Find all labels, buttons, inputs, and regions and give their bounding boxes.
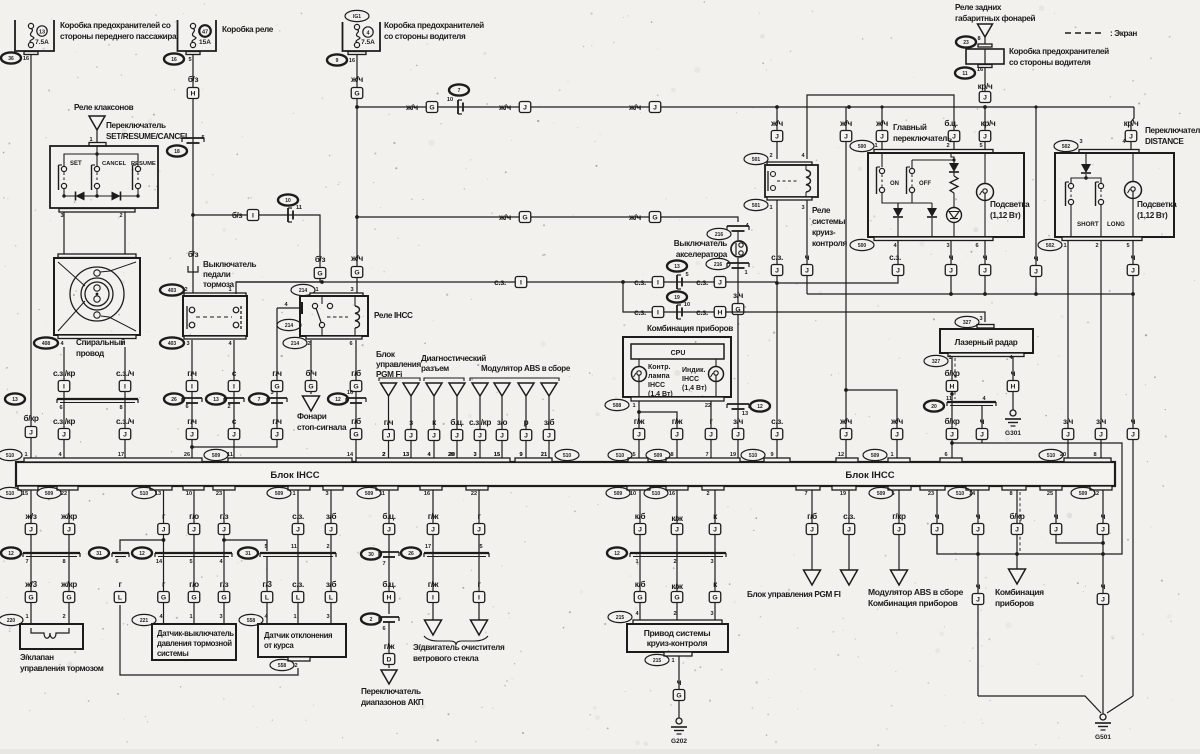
svg-text:I: I — [233, 384, 235, 391]
diode D2 — [112, 192, 121, 201]
connector oval 10 — [278, 194, 298, 205]
svg-text:г/кр: г/кр — [892, 512, 906, 521]
wire from switch pin 2 — [124, 212, 126, 254]
feed arrow р — [518, 383, 534, 396]
junction connector G 9 — [673, 690, 685, 701]
junction connector J 4 — [474, 430, 486, 441]
junction connector D — [383, 654, 395, 665]
svg-text:5: 5 — [264, 544, 267, 550]
svg-text:10: 10 — [285, 198, 291, 204]
svg-text:J: J — [709, 432, 713, 439]
svg-text:Реле задних: Реле задних — [955, 3, 1002, 12]
svg-text:J: J — [477, 527, 481, 534]
svg-text:J: J — [1101, 597, 1105, 604]
svg-text:б.ц.: б.ц. — [944, 118, 957, 128]
connector oval 30 bold — [361, 548, 381, 559]
svg-text:16: 16 — [669, 491, 675, 497]
svg-text:ON: ON — [890, 181, 899, 187]
svg-text:23: 23 — [928, 491, 934, 497]
svg-text:г/ж: г/ж — [384, 642, 395, 651]
svg-text:2: 2 — [1095, 243, 1098, 249]
svg-text:г/ч: г/ч — [384, 418, 394, 427]
junction connector H 5 — [714, 307, 726, 318]
svg-text:327: 327 — [963, 320, 972, 326]
connector oval 558 bottom — [270, 659, 294, 670]
cruise relay dashed link — [777, 180, 799, 182]
relay IHCC top tab — [310, 293, 363, 296]
svg-text:16: 16 — [347, 390, 353, 396]
connector oval 31b bold — [238, 547, 258, 558]
fuse F4 7.5A — [354, 24, 359, 29]
svg-text:502: 502 — [1046, 243, 1055, 249]
svg-text:I: I — [124, 384, 126, 391]
junction connector G relay — [271, 381, 283, 392]
svg-text:Модулятор ABS в сборе: Модулятор ABS в сборе — [868, 587, 964, 597]
junction connector J 2 — [63, 524, 75, 535]
svg-text:15: 15 — [494, 452, 500, 458]
svg-text:I: I — [520, 280, 522, 287]
svg-text:G: G — [522, 215, 527, 222]
svg-text:J: J — [29, 430, 33, 437]
svg-text:IG1: IG1 — [353, 14, 361, 20]
wire L down route — [120, 605, 298, 675]
stop lamps arrow — [303, 396, 320, 411]
svg-text:приборов: приборов — [995, 598, 1034, 608]
junction connector J lower — [771, 429, 783, 440]
wire г/б from relay IHCC pin6 — [355, 340, 357, 458]
rear lights relay symbol — [978, 24, 993, 37]
svg-text:510: 510 — [616, 453, 625, 459]
svg-text:1: 1 — [671, 658, 674, 664]
relay IHCC coil — [355, 306, 360, 328]
junction connector J — [771, 131, 783, 142]
svg-text:26: 26 — [171, 397, 177, 403]
junction connector J 22 — [1097, 524, 1109, 535]
junction connector G 2 — [305, 381, 317, 392]
svg-text:б/з: б/з — [188, 249, 199, 259]
fuse box 1 tab — [24, 52, 38, 55]
АКП arrow — [381, 670, 397, 684]
harness connector 26 bar — [424, 552, 489, 554]
feed arrow с.з./кр — [472, 383, 488, 396]
svg-text:509: 509 — [212, 453, 221, 459]
wire з/ч from DISTANCE pin2 — [1100, 241, 1102, 458]
connector oval 221 — [132, 614, 156, 625]
svg-text:19: 19 — [674, 295, 680, 301]
svg-text:I: I — [432, 595, 434, 602]
svg-text:Коробка предохранителей: Коробка предохранителей — [1009, 46, 1109, 56]
wire кр/ч to DISTANCE pin4 — [1131, 107, 1134, 150]
relay box (Коробка реле) outline — [178, 20, 217, 51]
svg-text:13: 13 — [403, 452, 409, 458]
junction connector J 5 — [496, 430, 508, 441]
svg-text:разъем: разъем — [421, 364, 449, 373]
svg-text:13: 13 — [155, 491, 161, 497]
svg-text:22: 22 — [61, 491, 67, 497]
svg-text:J: J — [523, 105, 527, 112]
svg-text:2: 2 — [307, 341, 310, 347]
DISTANCE top tab — [1079, 150, 1139, 154]
wire г/кр to ABS — [898, 490, 900, 570]
svg-text:J: J — [675, 527, 679, 534]
svg-text:6: 6 — [115, 559, 118, 565]
junction connector J 6 — [292, 524, 304, 535]
svg-text:J: J — [455, 433, 459, 440]
svg-text:ч: ч — [1101, 512, 1106, 521]
cruise relay coil — [806, 170, 811, 192]
svg-text:стороны переднего пассажира: стороны переднего пассажира — [60, 32, 177, 41]
ground collector bottom — [978, 696, 1101, 713]
svg-text:2: 2 — [294, 663, 297, 669]
svg-text:J: J — [980, 432, 984, 439]
svg-text:з/б: з/б — [544, 417, 555, 427]
svg-text:509: 509 — [45, 491, 54, 497]
svg-text:G: G — [191, 595, 196, 602]
svg-text:Коробка предохранителей: Коробка предохранителей — [384, 20, 484, 30]
svg-text:SET/RESUME/CANCEL: SET/RESUME/CANCEL — [106, 132, 190, 141]
svg-text:G: G — [429, 105, 434, 112]
svg-text:J: J — [1099, 432, 1103, 439]
svg-text:216: 216 — [714, 262, 723, 268]
junction connector G — [25, 592, 37, 603]
DISTANCE rail — [1071, 178, 1101, 183]
svg-text:Блок управления PGM FI: Блок управления PGM FI — [747, 590, 841, 599]
svg-text:5: 5 — [979, 143, 982, 149]
svg-text:с.з./кр: с.з./кр — [53, 417, 75, 426]
junction connector J — [1062, 429, 1074, 440]
svg-text:J: J — [896, 268, 900, 275]
wire з/ч from accel switch to bus — [737, 258, 739, 458]
svg-text:RESUME: RESUME — [131, 161, 156, 167]
svg-text:б/кр: б/кр — [1009, 511, 1024, 521]
junction connector I — [515, 277, 527, 288]
svg-text:J: J — [844, 134, 848, 141]
svg-text:б/кр: б/кр — [944, 416, 959, 426]
svg-text:J: J — [976, 527, 980, 534]
svg-text:(1,4 Вт): (1,4 Вт) — [682, 385, 707, 392]
svg-text:3: 3 — [326, 614, 329, 620]
fuse 47 15A — [190, 23, 195, 28]
wire б.ц. to main switch pin2 — [953, 101, 955, 150]
svg-text:з/ч: з/ч — [1096, 417, 1107, 426]
svg-text:акселератора: акселератора — [676, 250, 728, 259]
svg-text:г/ж: г/ж — [672, 417, 683, 426]
connector oval 7b bold — [249, 393, 269, 404]
bus top connector ovals — [0, 449, 22, 460]
svg-text:509: 509 — [614, 491, 623, 497]
svg-text:L: L — [329, 595, 333, 602]
svg-text:J: J — [1131, 432, 1135, 439]
svg-text:CANCEL: CANCEL — [102, 161, 127, 167]
junction connector J 2 — [428, 430, 440, 441]
inline connector 18 — [182, 137, 204, 139]
connector oval 13 bold — [5, 393, 25, 404]
svg-text:7: 7 — [458, 88, 461, 94]
svg-text:Комбинация приборов: Комбинация приборов — [868, 598, 958, 608]
wire б/кр from fuse box1 to bus — [30, 55, 32, 458]
harness connector 12 bar — [23, 552, 80, 554]
svg-text:L: L — [296, 595, 300, 602]
wire г wiper from bus — [478, 490, 480, 620]
bus bottom connector ovals — [0, 487, 22, 498]
svg-text:ч: ч — [1011, 369, 1016, 378]
svg-text:г/з: г/з — [220, 512, 229, 521]
svg-text:2: 2 — [62, 614, 65, 620]
svg-text:1: 1 — [293, 614, 296, 620]
junction connector J 4 — [186, 429, 198, 440]
horn relay symbol — [89, 116, 105, 130]
svg-text:25: 25 — [1047, 491, 1053, 497]
junction connector I 4 — [228, 381, 240, 392]
harness connector 12c bar — [155, 552, 232, 554]
svg-text:5: 5 — [479, 544, 482, 550]
svg-text:214: 214 — [299, 288, 308, 294]
svg-text:J: J — [432, 433, 436, 440]
svg-text:контроля: контроля — [812, 239, 847, 248]
svg-text:J: J — [895, 432, 899, 439]
svg-text:11: 11 — [291, 544, 297, 550]
yaw sensor bottom tab — [288, 657, 310, 661]
inline connector 30 — [379, 551, 399, 553]
svg-text:6: 6 — [349, 341, 352, 347]
lamp индикатор — [715, 359, 717, 367]
junction connector I 2 — [119, 381, 131, 392]
DISTANCE bottom tab — [1062, 237, 1142, 241]
svg-text:с.з.: с.з. — [771, 417, 783, 426]
svg-text:J: J — [775, 134, 779, 141]
connector oval 12b bold — [328, 393, 348, 404]
svg-text:Реле IHCC: Реле IHCC — [374, 311, 413, 320]
wire ж/кр from bus — [68, 490, 70, 624]
svg-text:управления: управления — [376, 360, 421, 369]
junction connector G — [314, 268, 326, 279]
svg-text:с.з.: с.з. — [634, 278, 646, 287]
junction connector J — [948, 131, 960, 142]
diode chain top — [951, 153, 954, 163]
wire ж/з from bus — [30, 490, 32, 624]
bus top tabs — [24, 458, 202, 462]
connector oval 558 — [239, 614, 263, 625]
svg-text:3: 3 — [219, 614, 222, 620]
svg-text:IHCC: IHCC — [682, 376, 699, 383]
svg-text:J: J — [976, 597, 980, 604]
junction connector J 4 — [188, 524, 200, 535]
wire г/о from bus pin10 — [193, 490, 195, 624]
svg-text:ветрового стекла: ветрового стекла — [413, 654, 479, 663]
connector oval 13b bold — [206, 393, 226, 404]
svg-text:J: J — [653, 105, 657, 112]
feed arrow з/б — [541, 383, 557, 396]
svg-text:к/ж: к/ж — [671, 582, 683, 591]
svg-text:2: 2 — [673, 559, 676, 565]
diode D4 — [897, 203, 899, 208]
svg-text:J: J — [500, 433, 504, 440]
svg-text:J: J — [67, 527, 71, 534]
svg-text:G: G — [308, 384, 313, 391]
svg-text:системы: системы — [812, 217, 846, 226]
svg-text:со стороны водителя: со стороны водителя — [384, 32, 466, 41]
inline connector 7-10 — [457, 100, 459, 114]
cruise relay contacts — [771, 172, 776, 177]
svg-text:509: 509 — [871, 453, 880, 459]
svg-text:3: 3 — [979, 316, 982, 322]
svg-text:12: 12 — [335, 397, 341, 403]
svg-text:19: 19 — [730, 452, 736, 458]
junction connector J — [771, 265, 783, 276]
brake switch contacts — [189, 307, 195, 313]
connector oval 16 — [164, 53, 184, 64]
diode D1 — [76, 192, 85, 201]
wire ч pin12 to ground G501 — [1102, 490, 1104, 714]
svg-text:14: 14 — [347, 452, 354, 458]
wire кр/ч to main switch pin5 — [984, 107, 986, 150]
svg-text:ж/ч: ж/ч — [839, 417, 852, 426]
junction б/з branch — [191, 213, 195, 217]
wire г/ж wiper from bus — [432, 490, 434, 620]
wire с.з./кр from spiral pin4 — [63, 347, 65, 458]
junction connector J — [945, 265, 957, 276]
svg-text:ж/3: ж/3 — [24, 580, 37, 589]
brake pedal switch box — [183, 296, 247, 336]
svg-text:с.з.: с.з. — [696, 308, 708, 317]
svg-text:G: G — [637, 595, 642, 602]
svg-text:9: 9 — [770, 452, 773, 458]
junction connector J 5 — [218, 524, 230, 535]
ON contact — [881, 153, 883, 167]
svg-text:Блок IHCC: Блок IHCC — [845, 470, 894, 481]
svg-text:13: 13 — [213, 397, 219, 403]
svg-text:L: L — [265, 595, 269, 602]
svg-text:8: 8 — [670, 452, 673, 458]
svg-text:1: 1 — [744, 270, 747, 276]
wire б/кр shielded to cluster — [1016, 490, 1018, 569]
radar bottom tab — [948, 353, 1024, 357]
svg-text:H: H — [1011, 384, 1016, 391]
svg-text:Блок IHCC: Блок IHCC — [270, 470, 319, 481]
svg-text:8: 8 — [62, 559, 65, 565]
svg-text:ж/ч: ж/ч — [770, 119, 783, 128]
svg-text:1: 1 — [632, 403, 635, 409]
junction connector J 3 — [158, 524, 170, 535]
brake valve box — [20, 624, 83, 649]
branch wire г to connector 31 — [120, 540, 164, 551]
svg-text:к/б: к/б — [635, 579, 646, 589]
svg-text:J: J — [736, 432, 740, 439]
svg-text:13: 13 — [39, 30, 45, 36]
svg-text:500: 500 — [858, 144, 867, 150]
svg-text:г/ж: г/ж — [428, 512, 439, 521]
spiral wire box — [54, 258, 140, 335]
svg-text:510: 510 — [563, 453, 572, 459]
svg-text:г/ч: г/ч — [272, 369, 282, 378]
svg-text:с.з./кр: с.з./кр — [53, 369, 75, 378]
svg-text:Привод системы: Привод системы — [644, 628, 711, 638]
arrow г/кр — [891, 570, 908, 585]
harness connector 31 bar — [112, 552, 129, 554]
ч collector line y294 — [807, 241, 1133, 294]
svg-text:з/о: з/о — [497, 418, 508, 427]
junction connector J 7 — [543, 430, 555, 441]
wire г/ж from cluster pin1 — [638, 401, 640, 458]
svg-text:G: G — [676, 693, 681, 700]
svg-text:8: 8 — [1009, 491, 1012, 497]
svg-text:1: 1 — [874, 143, 877, 149]
LED indicator — [953, 193, 955, 207]
svg-text:1: 1 — [315, 287, 318, 293]
wire ч pin14 to ground — [977, 490, 979, 696]
svg-text:3: 3 — [60, 213, 63, 219]
junction dot г/з branch — [222, 538, 226, 542]
junction connector J — [979, 92, 991, 103]
svg-text:7: 7 — [705, 452, 708, 458]
connector oval 12d bold — [607, 547, 627, 558]
junction connector J — [25, 427, 37, 438]
svg-text:500: 500 — [858, 243, 867, 249]
inline connector 12-13 — [727, 403, 749, 405]
svg-text:Фонари: Фонари — [297, 412, 327, 421]
svg-text:со стороны водителя: со стороны водителя — [1009, 58, 1091, 67]
svg-text:Э/клапан: Э/клапан — [20, 653, 54, 662]
ground G501 — [1100, 714, 1106, 720]
svg-text:G501: G501 — [1095, 734, 1111, 741]
svg-text:габаритных фонарей: габаритных фонарей — [955, 13, 1036, 23]
svg-text:с.з.: с.з. — [292, 512, 304, 521]
junction connector J 1 — [405, 430, 417, 441]
fuse box 1 (passenger side) outline — [15, 20, 54, 51]
svg-text:ж/ч: ж/ч — [405, 103, 418, 112]
svg-text:6: 6 — [975, 243, 978, 249]
wire г/б to PGM FI — [811, 490, 813, 570]
svg-text:ч: ч — [1054, 512, 1059, 521]
fuse box 2 (driver side) IG1 oval — [345, 10, 369, 21]
svg-text:10: 10 — [684, 302, 690, 308]
wire г from bus pin13 — [163, 490, 165, 624]
svg-text:J: J — [880, 134, 884, 141]
ground collector y443 — [950, 441, 954, 445]
cruise actuator box — [627, 624, 728, 652]
LONG contact — [1098, 183, 1103, 188]
junction connector G 3 — [350, 381, 362, 392]
svg-text:г/ч: г/ч — [187, 417, 197, 426]
svg-text:ж/ч: ж/ч — [628, 103, 641, 112]
svg-text:J: J — [805, 268, 809, 275]
svg-text:G: G — [354, 270, 359, 277]
svg-text:J: J — [952, 134, 956, 141]
connector oval 215 bottom — [645, 654, 669, 665]
svg-text:с.з./ч: с.з./ч — [116, 369, 135, 378]
svg-text:Переключатель: Переключатель — [106, 121, 166, 130]
feed arrow з — [403, 383, 419, 396]
wire к/ж from bus — [676, 490, 678, 624]
wire с.з. cruise relay pin1 to bus — [776, 200, 778, 458]
svg-text:ч: ч — [1131, 253, 1136, 262]
svg-text:ж/ч: ж/ч — [350, 254, 363, 263]
connector oval 26b bold — [401, 547, 421, 558]
svg-text:3: 3 — [1079, 139, 1082, 145]
svg-text:509: 509 — [654, 453, 663, 459]
arrow г/б — [804, 570, 821, 585]
svg-text:H: H — [387, 595, 392, 602]
inline connector 19 — [676, 305, 678, 319]
svg-text:стоп-сигнала: стоп-сигнала — [297, 423, 347, 432]
junction connector J 2 — [671, 429, 683, 440]
svg-text:12: 12 — [1093, 491, 1099, 497]
svg-text:403: 403 — [168, 341, 177, 347]
svg-text:J: J — [897, 527, 901, 534]
cruise actuator bottom tab — [664, 652, 692, 656]
svg-text:1: 1 — [292, 491, 295, 497]
driver fuse box tab — [978, 65, 992, 68]
